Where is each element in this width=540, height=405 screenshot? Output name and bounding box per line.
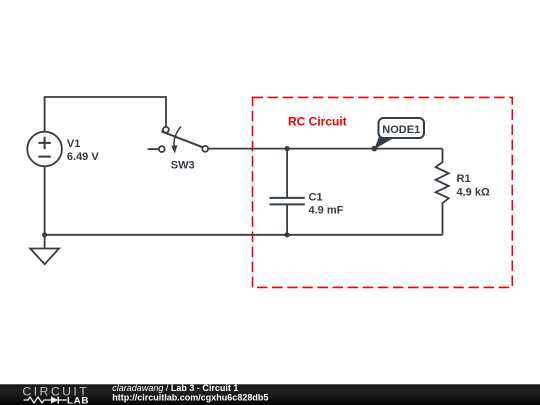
V1 value labels xyxy=(67,138,99,163)
wire top rail from V1 to SW3 xyxy=(45,97,166,132)
ground xyxy=(30,235,59,264)
C1 value labels xyxy=(309,191,344,216)
svg-text:4.9 kΩ: 4.9 kΩ xyxy=(457,187,490,199)
junction dot at ground xyxy=(42,232,47,237)
resistor R1 xyxy=(436,149,449,235)
voltage source V1 xyxy=(27,132,62,167)
switch SW3 xyxy=(148,127,209,152)
svg-text:SW3: SW3 xyxy=(171,159,195,171)
svg-text:6.49 V: 6.49 V xyxy=(67,151,99,163)
wire main node rail (switch to resistor) xyxy=(208,148,443,150)
svg-text:http://circuitlab.com/cgxhu6c8: http://circuitlab.com/cgxhu6c828db5 xyxy=(112,392,268,402)
footer bar xyxy=(0,384,540,405)
wire V1 bottom to ground rail xyxy=(44,166,46,235)
svg-text:V1: V1 xyxy=(67,138,80,150)
wire bottom rail xyxy=(45,234,443,236)
junction dot at C1 top xyxy=(285,146,290,151)
RC Circuit dashed annotation box xyxy=(253,97,513,287)
R1 value labels xyxy=(457,173,490,199)
node NODE1 flag xyxy=(372,118,424,151)
svg-text:R1: R1 xyxy=(457,173,471,185)
svg-text:NODE1: NODE1 xyxy=(382,124,420,136)
CircuitLab logo diode triangle xyxy=(51,396,58,403)
svg-text:4.9 mF: 4.9 mF xyxy=(309,204,344,216)
svg-text:LAB: LAB xyxy=(67,395,89,405)
junction dot at C1 bottom xyxy=(285,232,290,237)
svg-text:C1: C1 xyxy=(309,191,323,203)
CircuitLab logo resistor-diode line xyxy=(24,397,67,404)
switch SW3 actuation arrow xyxy=(171,127,181,154)
capacitor C1 xyxy=(270,149,305,235)
svg-text:RC Circuit: RC Circuit xyxy=(288,115,347,129)
